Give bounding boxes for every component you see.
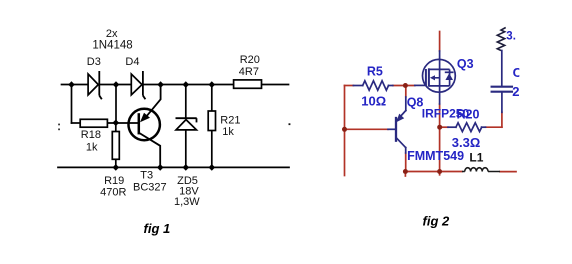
svg-text:470R: 470R: [100, 187, 126, 199]
svg-text:D3: D3: [87, 56, 101, 68]
svg-text:R20: R20: [457, 108, 480, 122]
svg-text:D4: D4: [125, 56, 139, 68]
svg-text:2: 2: [512, 84, 519, 99]
svg-text:BC327: BC327: [133, 181, 167, 193]
svg-text:Q3: Q3: [457, 57, 474, 71]
svg-text:1k: 1k: [222, 126, 234, 138]
svg-text:FMMT549: FMMT549: [407, 149, 464, 163]
svg-text:3.3Ω: 3.3Ω: [452, 135, 481, 150]
svg-text:R19: R19: [104, 175, 124, 187]
svg-text:fig 2: fig 2: [423, 214, 450, 229]
svg-text:R18: R18: [81, 129, 101, 141]
svg-text:1N4148: 1N4148: [92, 40, 132, 52]
svg-text:R21: R21: [220, 115, 240, 127]
svg-text:fig 1: fig 1: [144, 221, 171, 236]
svg-text:R20: R20: [240, 54, 260, 66]
svg-text:3.: 3.: [506, 31, 516, 43]
svg-text:1k: 1k: [86, 141, 98, 153]
svg-text:T3: T3: [140, 170, 153, 182]
svg-text:R5: R5: [367, 65, 383, 79]
svg-text:L1: L1: [469, 151, 483, 165]
svg-text:4R7: 4R7: [239, 66, 259, 78]
svg-text:1,3W: 1,3W: [174, 196, 200, 208]
svg-text:10Ω: 10Ω: [361, 94, 386, 109]
svg-text:2x: 2x: [106, 28, 118, 40]
